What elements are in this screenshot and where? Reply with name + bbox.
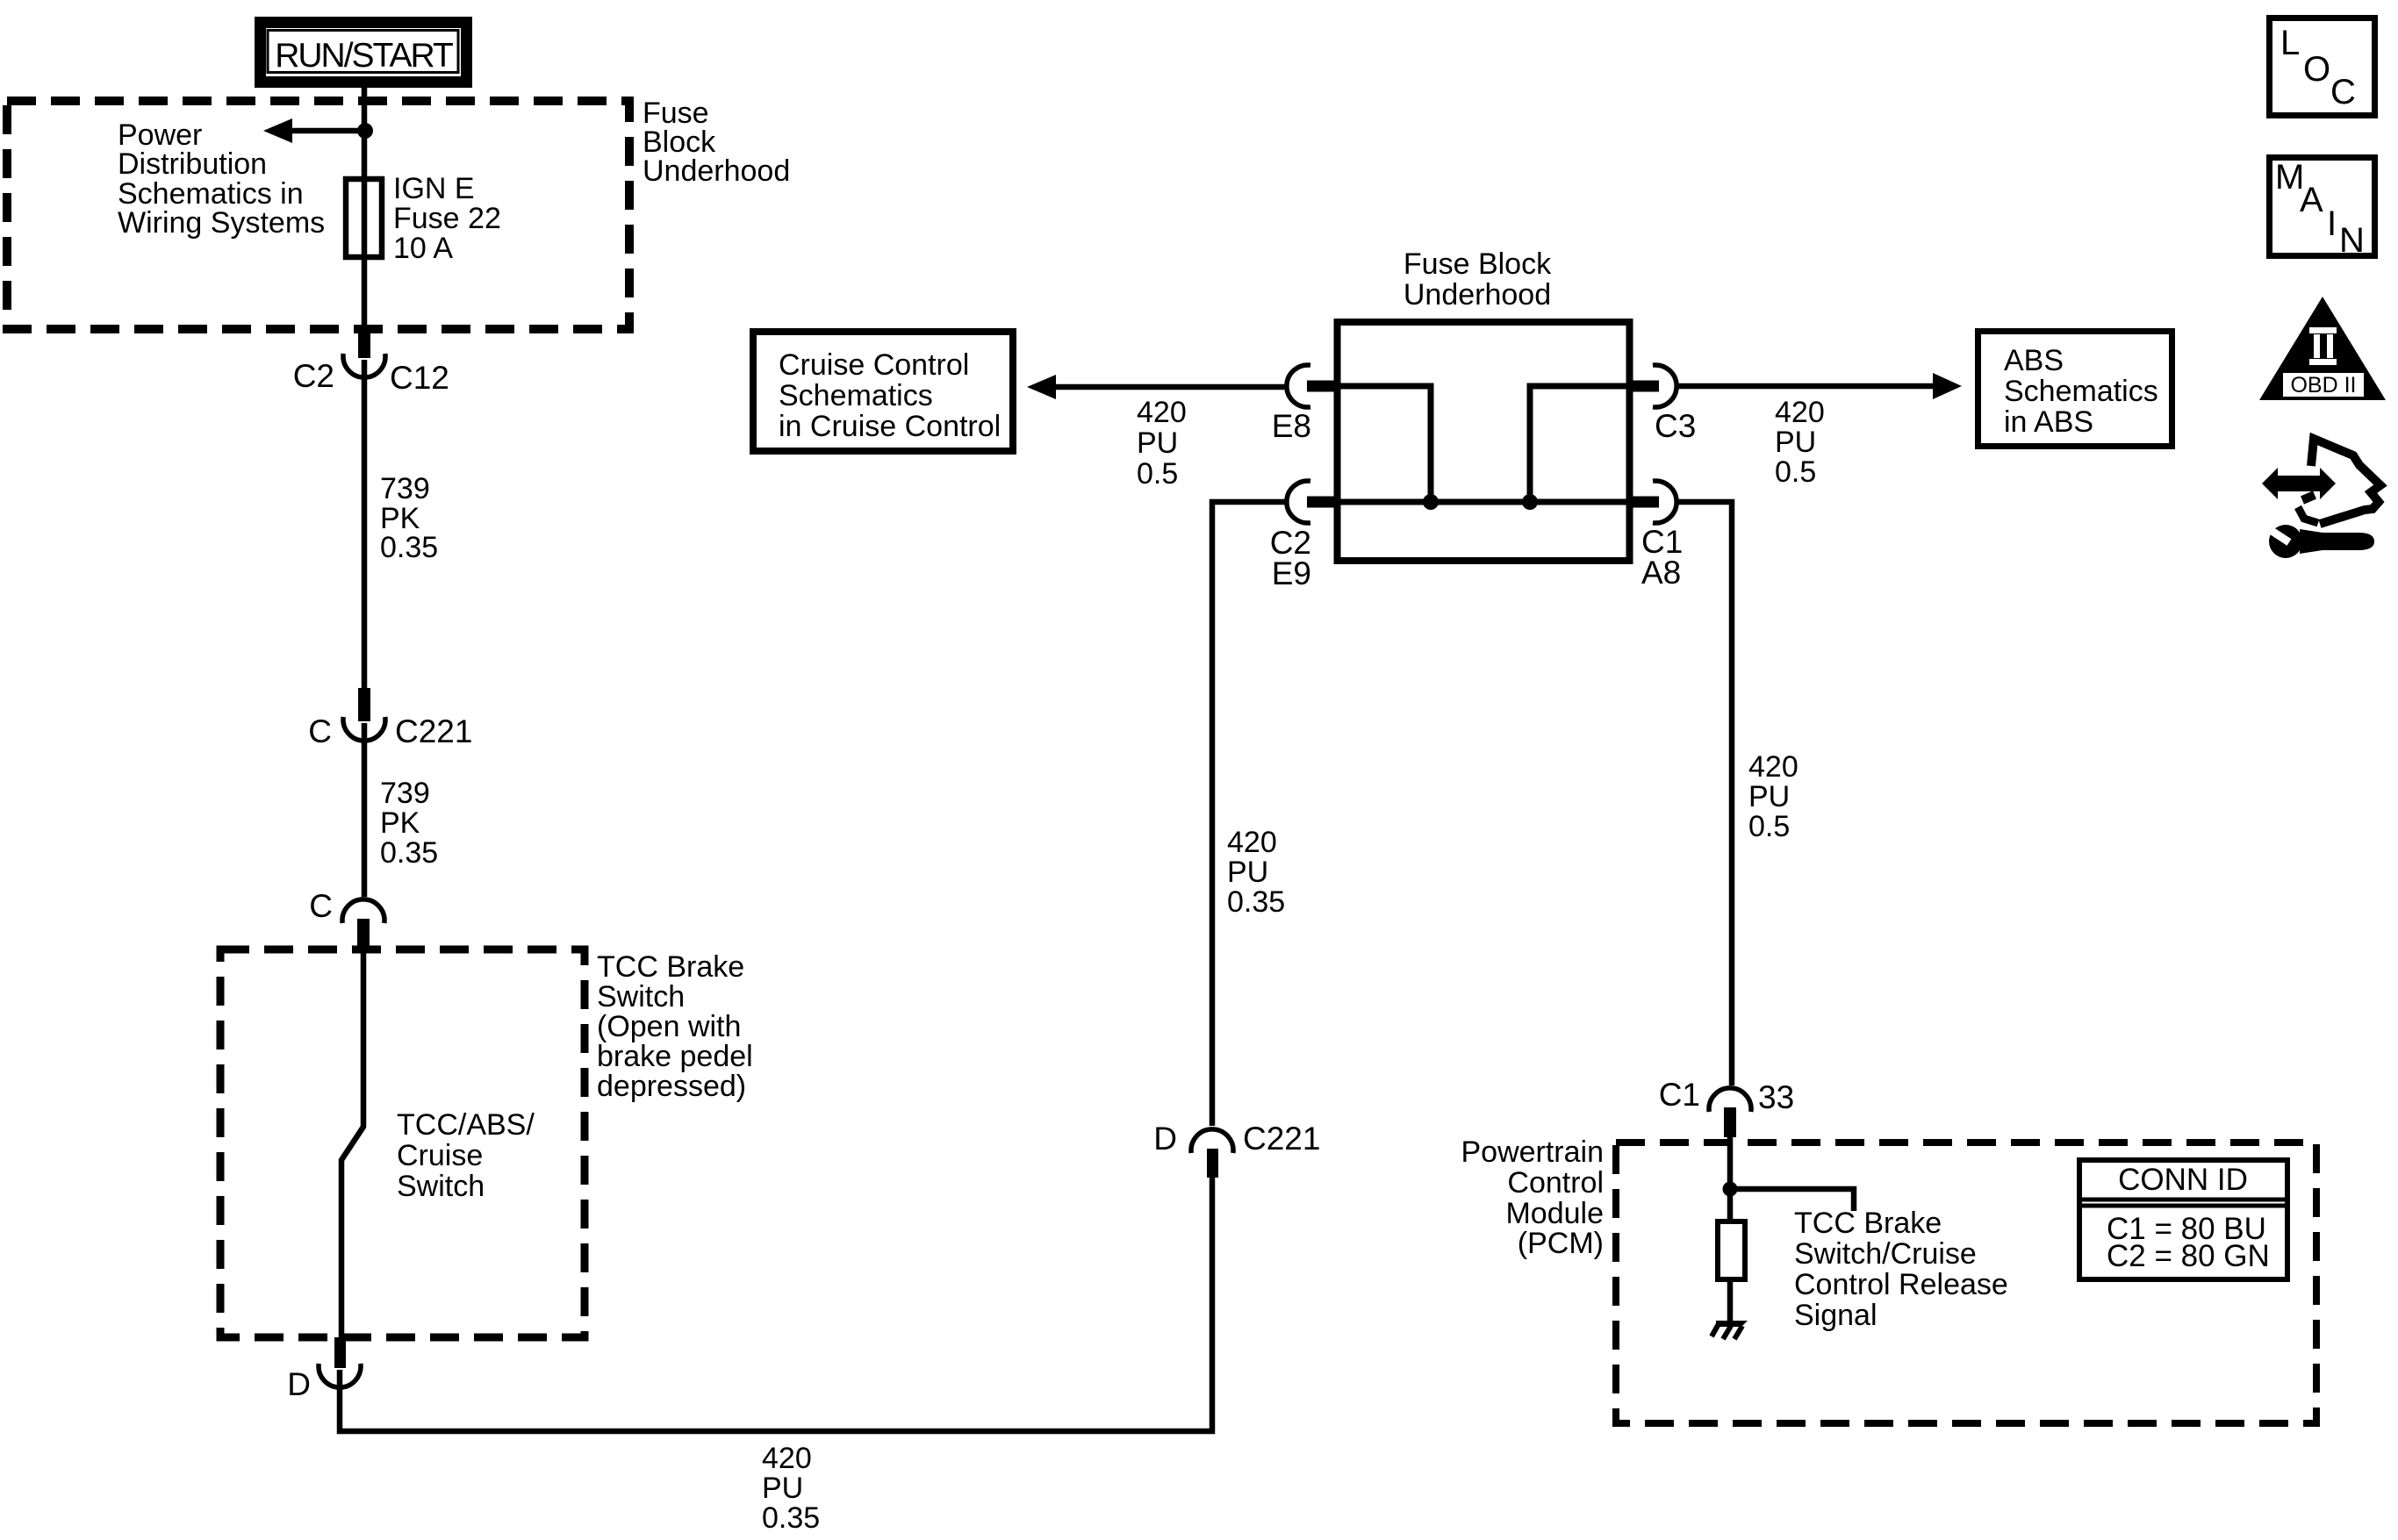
label 420 PU 0.5 (right wire)	[1748, 750, 1798, 843]
connector C/C221: male stub	[358, 688, 370, 721]
svg-text:PU: PU	[1227, 856, 1268, 889]
label: Power Distribution Schematics in Wiring Systems	[118, 118, 325, 240]
wire: C1/A8 down to PCM C1/33	[1678, 502, 1732, 1085]
label: Fuse Block Underhood (center)	[1404, 247, 1552, 312]
svg-text:in Cruise Control: in Cruise Control	[779, 410, 1001, 443]
svg-text:10 A: 10 A	[393, 232, 453, 265]
label: Fuse Block Underhood (top-left box)	[643, 97, 790, 188]
svg-text:C2: C2	[293, 358, 334, 394]
svg-text:C12: C12	[390, 360, 449, 396]
svg-text:PU: PU	[1748, 780, 1790, 813]
wire: E8 to cruise control arrow	[1052, 384, 1285, 390]
svg-text:420: 420	[1227, 826, 1277, 859]
service/diagnostic hand-wrench icon	[2262, 439, 2380, 558]
ground (chassis)	[1712, 1321, 1748, 1339]
svg-text:depressed): depressed)	[597, 1070, 746, 1103]
label 420 PU 0.35 (middle wire)	[1227, 826, 1285, 919]
connector C3 male stub	[1629, 381, 1659, 392]
svg-text:0.35: 0.35	[380, 836, 438, 870]
svg-text:Distribution: Distribution	[118, 147, 267, 181]
OBD II triangle icon	[2259, 297, 2386, 400]
wire 739 PK segment 1	[362, 360, 368, 688]
wire RUN/START to C2/C12 connector	[362, 88, 368, 335]
wire from D down to bottom run	[337, 1370, 343, 1429]
svg-text:0.5: 0.5	[1775, 455, 1816, 489]
svg-text:420: 420	[1137, 396, 1187, 429]
svg-text:Powertrain: Powertrain	[1461, 1135, 1604, 1169]
svg-text:Switch: Switch	[597, 980, 685, 1014]
node: junction inside PCM	[1723, 1182, 1738, 1197]
PCM dashed box	[1616, 1142, 2316, 1423]
svg-text:Switch/Cruise: Switch/Cruise	[1794, 1237, 1977, 1271]
label: Powertrain Control Module (PCM)	[1461, 1135, 1604, 1260]
connector C/C221 female arc	[343, 717, 385, 741]
svg-text:N: N	[2339, 221, 2365, 260]
svg-text:Module: Module	[1505, 1197, 1604, 1230]
connector C1/A8 male stub	[1629, 497, 1659, 508]
wire: C3 to ABS arrow	[1678, 383, 1936, 390]
connector C2/C12: male stub	[358, 333, 370, 358]
svg-text:D: D	[287, 1366, 311, 1402]
svg-text:A: A	[2300, 181, 2323, 219]
svg-text:Cruise: Cruise	[397, 1139, 483, 1172]
CONN ID table	[2079, 1160, 2287, 1279]
svg-text:0.5: 0.5	[1748, 810, 1790, 843]
connector C1/A8 female arc	[1653, 481, 1676, 523]
svg-text:Cruise Control: Cruise Control	[779, 348, 969, 382]
svg-text:I: I	[2327, 204, 2337, 243]
label: IGN E Fuse 22 10 A	[393, 172, 501, 265]
Cruise Control Schematics box	[753, 332, 1013, 451]
svg-text:739: 739	[380, 472, 430, 505]
svg-text:0.35: 0.35	[380, 531, 438, 564]
connector E8 female arc	[1287, 365, 1310, 407]
wire row2 bus inside block	[1338, 499, 1629, 505]
ABS Schematics box	[1978, 332, 2172, 447]
svg-text:PU: PU	[1775, 426, 1816, 459]
svg-text:IGN E: IGN E	[393, 172, 475, 205]
connector C male stub below	[357, 919, 370, 950]
svg-text:420: 420	[762, 1442, 812, 1475]
svg-text:C221: C221	[1243, 1121, 1320, 1157]
svg-text:Schematics: Schematics	[2004, 375, 2158, 408]
connector C1/33 male stub	[1724, 1107, 1736, 1137]
switch TCC/ABS/Cruise: wire + blade	[341, 950, 363, 1337]
svg-text:OBD II: OBD II	[2290, 373, 2356, 398]
label: TCC/ABS/ Cruise Switch	[397, 1108, 535, 1203]
label: TCC Brake Switch (Open with brake pedel depressed)	[597, 950, 753, 1103]
connector C1/33 female arc (opens down)	[1709, 1088, 1751, 1112]
svg-text:E9: E9	[1272, 555, 1311, 591]
connector D/C221 female arc (opens down)	[1191, 1129, 1233, 1153]
svg-text:C3: C3	[1655, 408, 1696, 444]
fuse block underhood dashed box (top left)	[7, 101, 629, 329]
svg-text:C: C	[308, 713, 332, 749]
TCC Brake Switch dashed box	[220, 949, 585, 1337]
wire: arrow to Power Distribution Schematics	[287, 128, 365, 134]
svg-text:Underhood: Underhood	[1404, 278, 1551, 312]
svg-text:420: 420	[1748, 750, 1798, 784]
node: junction dot left	[1423, 494, 1439, 510]
RUN/START power feed box	[261, 23, 467, 82]
svg-text:0.35: 0.35	[762, 1501, 820, 1535]
svg-text:Signal: Signal	[1794, 1299, 1877, 1332]
connector C at TCC switch: female arc (opens down)	[342, 899, 384, 923]
wire row1 right inside block	[1530, 386, 1629, 502]
svg-text:D: D	[1153, 1121, 1177, 1157]
wire 739 PK segment 2	[362, 723, 368, 897]
label 420 PU 0.5 (C3 side)	[1775, 396, 1825, 489]
svg-text:PU: PU	[1137, 426, 1178, 460]
fuse block underhood box	[1338, 322, 1630, 561]
svg-text:Control Release: Control Release	[1794, 1268, 2008, 1301]
svg-text:Fuse Block: Fuse Block	[1404, 247, 1552, 281]
svg-text:A8: A8	[1641, 555, 1681, 591]
svg-text:Schematics: Schematics	[779, 379, 933, 412]
label 420 PU 0.5 (E8 side)	[1137, 396, 1187, 491]
node: junction dot right	[1522, 494, 1538, 510]
svg-text:33: 33	[1758, 1079, 1794, 1115]
svg-text:(Open with: (Open with	[597, 1010, 741, 1043]
wire into PCM from C1/33	[1727, 1137, 1734, 1221]
connector D female arc (opens up)	[319, 1364, 361, 1387]
svg-text:0.5: 0.5	[1137, 457, 1178, 491]
node: junction at ignition feed	[357, 123, 373, 139]
LOC icon box	[2270, 18, 2375, 116]
svg-text:C2 = 80 GN: C2 = 80 GN	[2107, 1239, 2270, 1273]
svg-text:E8: E8	[1272, 408, 1311, 444]
label 420 PU 0.35 (bottom)	[762, 1442, 820, 1535]
svg-text:739: 739	[380, 777, 430, 810]
svg-text:L: L	[2280, 24, 2300, 62]
wire: C2/E9 down to D/C221	[1212, 502, 1285, 1126]
svg-text:C221: C221	[395, 713, 472, 749]
label: TCC Brake Switch/Cruise Control Release Signal	[1794, 1207, 2008, 1332]
svg-text:Control: Control	[1507, 1166, 1604, 1200]
svg-text:Fuse 22: Fuse 22	[393, 202, 501, 235]
svg-text:RUN/START: RUN/START	[275, 37, 453, 75]
MAIN icon box	[2270, 158, 2375, 261]
svg-text:C: C	[309, 888, 333, 924]
svg-text:CONN ID: CONN ID	[2118, 1163, 2248, 1197]
svg-text:Underhood: Underhood	[643, 154, 790, 188]
svg-text:PK: PK	[380, 806, 420, 840]
svg-text:ABS: ABS	[2004, 344, 2064, 377]
svg-text:420: 420	[1775, 396, 1825, 429]
svg-text:C: C	[2330, 73, 2356, 111]
wire row1 left inside block	[1338, 386, 1431, 502]
resistor (pull-up in PCM)	[1718, 1221, 1745, 1279]
svg-text:in ABS: in ABS	[2004, 405, 2093, 439]
wire: branch to TCC brake signal	[1730, 1189, 1854, 1211]
connector C2/C12 female arc	[343, 354, 385, 377]
svg-text:0.35: 0.35	[1227, 885, 1285, 919]
svg-text:TCC Brake: TCC Brake	[1794, 1207, 1942, 1240]
svg-text:(PCM): (PCM)	[1518, 1227, 1604, 1260]
wire: long bottom horizontal 420 PU run	[340, 1178, 1212, 1431]
wire resistor to ground	[1727, 1279, 1734, 1325]
connector C2/E9 female arc	[1287, 481, 1310, 523]
svg-text:PU: PU	[762, 1472, 803, 1505]
svg-text:TCC/ABS/: TCC/ABS/	[397, 1108, 535, 1142]
svg-text:O: O	[2303, 50, 2330, 89]
connector C2/E9 male stub	[1307, 497, 1337, 508]
fuse IGN E Fuse 22 10A	[346, 179, 382, 257]
connector D at TCC box bottom: male stub	[334, 1337, 346, 1368]
svg-text:Switch: Switch	[397, 1170, 485, 1203]
svg-text:TCC Brake: TCC Brake	[597, 950, 744, 984]
connector E8 male stub	[1307, 381, 1337, 392]
svg-text:C1: C1	[1659, 1077, 1700, 1113]
label 739 PK 0.35 (1)	[380, 472, 438, 564]
label 739 PK 0.35 (2)	[380, 777, 438, 870]
svg-text:Wiring Systems: Wiring Systems	[118, 206, 325, 240]
connector D/C221 male stub	[1207, 1149, 1218, 1178]
connector C3 female arc	[1653, 365, 1676, 407]
svg-text:brake pedel: brake pedel	[597, 1040, 753, 1073]
